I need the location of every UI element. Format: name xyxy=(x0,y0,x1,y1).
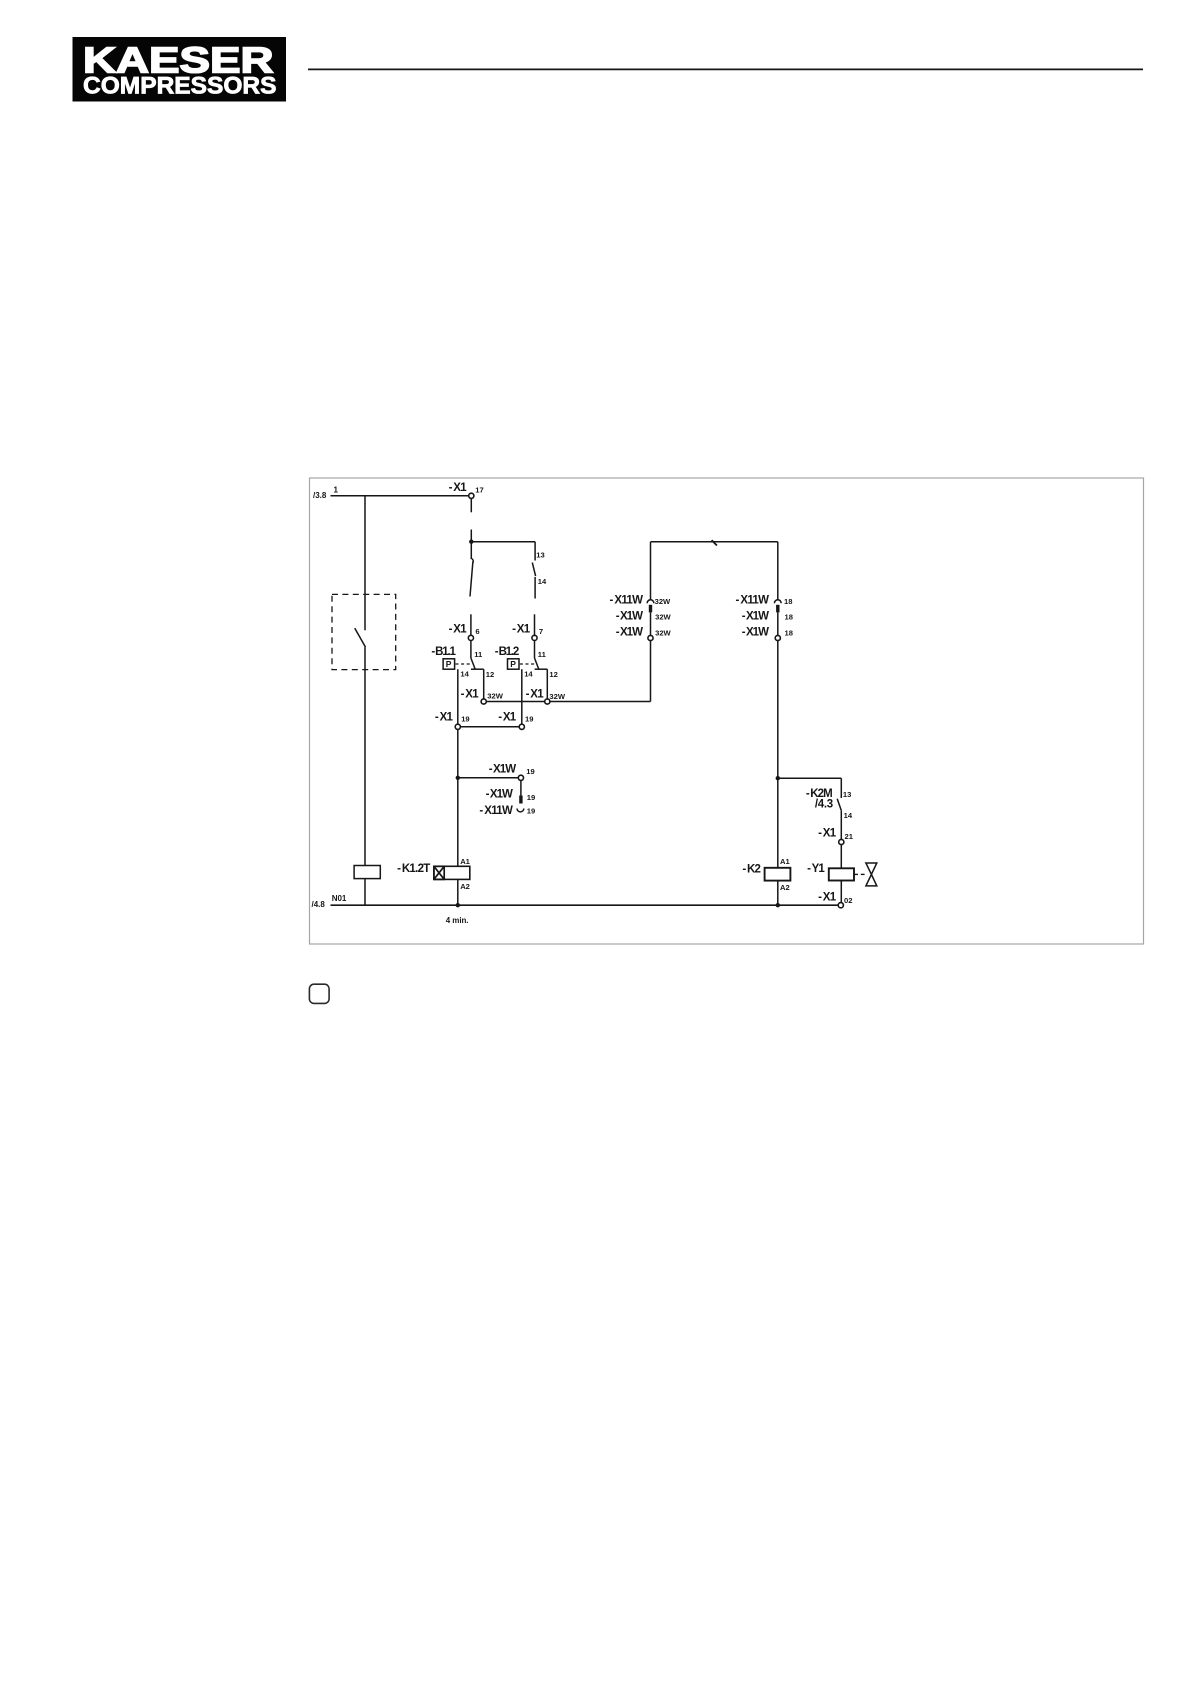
svg-text:- X11W: - X11W xyxy=(479,805,513,817)
switch blade in dashed box xyxy=(355,628,366,647)
svg-text:32W: 32W xyxy=(655,597,671,606)
label 4 min. xyxy=(446,916,469,925)
wire: branch node C to K2M xyxy=(778,778,842,798)
dashed enclosure box xyxy=(332,594,396,669)
wire: segment to junction node A xyxy=(470,530,472,542)
svg-text:- X1: - X1 xyxy=(449,482,468,494)
node D junction dot on bus xyxy=(776,903,780,907)
node C junction dot xyxy=(776,776,780,780)
svg-text:- B1.2: - B1.2 xyxy=(495,646,520,658)
svg-text:19: 19 xyxy=(525,715,533,724)
svg-text:- X1W: - X1W xyxy=(742,626,769,638)
svg-text:19: 19 xyxy=(527,793,535,802)
svg-text:- X1: - X1 xyxy=(512,624,531,636)
empty device box on left branch xyxy=(354,866,380,879)
svg-text:21: 21 xyxy=(845,832,854,841)
svg-text:/4.8: /4.8 xyxy=(312,900,326,909)
wire: top right horizontal xyxy=(651,541,778,543)
svg-text:18: 18 xyxy=(785,629,793,638)
terminal -X1:17 xyxy=(449,482,484,498)
svg-text:18: 18 xyxy=(784,597,792,606)
checkbox square below schematic xyxy=(309,984,329,1003)
svg-text:N01: N01 xyxy=(332,894,347,903)
svg-text:14: 14 xyxy=(524,670,533,679)
svg-text:32W: 32W xyxy=(487,691,503,700)
wire: 32W net horizontal xyxy=(486,641,650,702)
svg-text:- X1W: - X1W xyxy=(742,610,769,622)
svg-text:32W: 32W xyxy=(549,692,565,701)
svg-text:- X1: - X1 xyxy=(449,624,468,636)
svg-text:14: 14 xyxy=(460,670,469,679)
relay coil K2 xyxy=(742,857,790,905)
svg-text:19: 19 xyxy=(526,767,534,776)
svg-text:- K2: - K2 xyxy=(742,863,761,875)
svg-text:18: 18 xyxy=(785,613,793,622)
svg-text:/3.8: /3.8 xyxy=(313,491,327,500)
wire: left branch vertical lower xyxy=(364,647,366,865)
wire: X1:19 link xyxy=(460,726,519,728)
svg-text:- X1: - X1 xyxy=(435,712,454,724)
terminal -X1:32W right xyxy=(526,689,566,704)
svg-text:- X1W: - X1W xyxy=(486,789,513,801)
wire: stub below X1:17 xyxy=(470,499,472,512)
svg-text:- X1W: - X1W xyxy=(489,763,516,775)
node A junction dot xyxy=(469,540,473,544)
svg-text:7: 7 xyxy=(539,627,543,636)
wire: down from X1:19 to node B xyxy=(457,729,459,866)
auxiliary contact K2M pins 13 14 xyxy=(806,788,853,840)
schematic frame xyxy=(310,478,1144,944)
solenoid coil Y1 xyxy=(807,863,854,903)
wire: top bus L1 xyxy=(331,495,469,497)
terminal -X1:6 xyxy=(449,624,480,641)
terminal -X1:19 left xyxy=(435,712,470,730)
terminal -X1:21 xyxy=(818,827,854,844)
pressure switch B1.1 xyxy=(431,640,494,724)
svg-text:13: 13 xyxy=(536,550,544,559)
connector -X1W:19 stack xyxy=(479,763,535,817)
terminal -X1:02 xyxy=(818,892,852,908)
header rule xyxy=(308,68,1143,70)
svg-text:- K1.2T: - K1.2T xyxy=(397,863,430,875)
contact K1 left pole xyxy=(470,542,473,636)
wire: X1:21 to Y1 xyxy=(840,845,842,869)
svg-text:32W: 32W xyxy=(655,613,671,622)
svg-text:19: 19 xyxy=(527,807,535,816)
svg-text:12: 12 xyxy=(486,670,494,679)
svg-text:32W: 32W xyxy=(655,629,671,638)
connector -X11W:32W stack xyxy=(610,542,672,641)
svg-text:- X11W: - X11W xyxy=(736,595,770,607)
svg-text:6: 6 xyxy=(475,627,479,636)
connector -X11W:18 stack xyxy=(736,542,793,641)
node E junction dot on bus xyxy=(456,903,460,907)
svg-text:COMPRESSORS: COMPRESSORS xyxy=(83,74,277,100)
svg-text:- X1: - X1 xyxy=(818,892,837,904)
wire: right chain down to node C xyxy=(777,641,779,868)
pressure switch B1.2 xyxy=(495,640,558,724)
svg-text:12: 12 xyxy=(549,670,557,679)
svg-text:/4.3: /4.3 xyxy=(815,799,833,811)
svg-text:14: 14 xyxy=(538,577,547,586)
node B junction dot xyxy=(456,776,460,780)
terminal -X1:7 xyxy=(512,624,543,641)
timer relay coil K1.2T xyxy=(397,857,471,905)
net label /3.8 line 1 xyxy=(313,486,339,501)
terminal -X1:19 right xyxy=(498,712,533,730)
svg-text:1: 1 xyxy=(334,486,339,495)
wire: branch node B to X1W:19 xyxy=(458,777,519,779)
svg-text:4 min.: 4 min. xyxy=(446,916,469,925)
wire: left branch to bottom bus xyxy=(364,879,366,906)
svg-text:A2: A2 xyxy=(460,882,470,891)
valve symbol xyxy=(854,863,877,886)
svg-text:- X1: - X1 xyxy=(461,689,480,701)
wire break tick xyxy=(712,540,717,545)
svg-text:- X1: - X1 xyxy=(526,689,545,701)
terminal -X1:32W left xyxy=(461,689,504,704)
svg-text:- B1.1: - B1.1 xyxy=(431,646,456,658)
wire: horizontal from node A to right branch xyxy=(471,541,535,543)
svg-text:17: 17 xyxy=(475,485,483,494)
svg-text:A2: A2 xyxy=(780,883,790,892)
svg-text:- X1: - X1 xyxy=(818,827,837,839)
svg-text:- X1W: - X1W xyxy=(616,626,643,638)
svg-text:02: 02 xyxy=(844,896,852,905)
wire: left branch vertical xyxy=(364,496,366,631)
KAESER logo xyxy=(73,37,287,102)
svg-text:14: 14 xyxy=(844,811,853,820)
svg-text:- X1: - X1 xyxy=(498,712,517,724)
contact K1 right pole pins 13 14 xyxy=(532,542,547,636)
svg-text:11: 11 xyxy=(474,650,483,659)
svg-text:A1: A1 xyxy=(460,857,470,866)
net label /4.8 N01 xyxy=(312,894,347,909)
svg-text:19: 19 xyxy=(461,715,469,724)
svg-text:- Y1: - Y1 xyxy=(807,863,825,875)
svg-text:A1: A1 xyxy=(780,857,790,866)
wire: bottom bus N01 xyxy=(331,904,839,906)
svg-text:11: 11 xyxy=(538,650,547,659)
svg-text:13: 13 xyxy=(843,790,851,799)
svg-text:- X11W: - X11W xyxy=(610,595,644,607)
svg-text:P: P xyxy=(446,659,452,669)
svg-text:- X1W: - X1W xyxy=(616,610,643,622)
svg-text:P: P xyxy=(510,659,516,669)
